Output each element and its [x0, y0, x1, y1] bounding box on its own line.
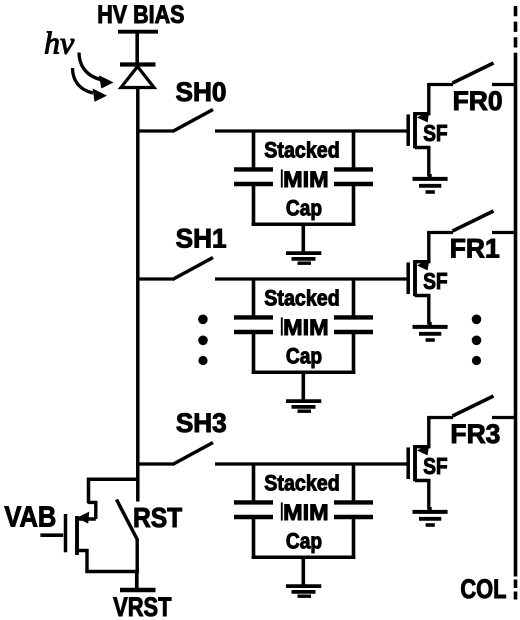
- ground (row3 SF source): [413, 507, 448, 525]
- svg-text:Cap: Cap: [286, 344, 322, 369]
- svg-text:FR3: FR3: [450, 419, 500, 449]
- svg-text:MIM: MIM: [283, 314, 328, 339]
- svg-text:SF: SF: [423, 268, 448, 294]
- label Stacked MIM Cap (row1): [264, 286, 339, 369]
- wire row1 top rail: [215, 277, 407, 280]
- wire FR3 contact to COL: [492, 416, 517, 419]
- wire FR1 contact to COL: [492, 231, 517, 234]
- ground (row0 SF source): [413, 174, 448, 192]
- wire row0 bottom rail: [252, 223, 356, 227]
- svg-text:SH1: SH1: [176, 223, 227, 253]
- svg-text:FR1: FR1: [450, 233, 500, 263]
- photodiode D1: [120, 65, 156, 88]
- transistor SF (row1 source follower): [408, 232, 429, 325]
- svg-text:Stacked: Stacked: [264, 138, 339, 162]
- capacitor C0a (left MIM): [234, 130, 273, 226]
- ground (row1 SF source): [413, 322, 448, 340]
- capacitor C3a (left MIM): [234, 463, 273, 559]
- switch RST: [117, 500, 138, 573]
- ground (row3 cap block): [286, 557, 321, 596]
- switch SH3: [173, 443, 214, 465]
- light arrow 2: [73, 68, 108, 102]
- svg-text:Stacked: Stacked: [264, 471, 339, 495]
- ellipsis dots right: [472, 315, 482, 366]
- svg-text:FR0: FR0: [453, 86, 503, 116]
- svg-text:SF: SF: [423, 453, 448, 479]
- cursor mark left of MIM (row3): [281, 502, 283, 520]
- capacitor C0b (right MIM): [334, 130, 373, 226]
- wire row1 bus-to-SH1: [137, 277, 175, 280]
- svg-text:VRST: VRST: [113, 593, 171, 620]
- wire row0 top rail: [215, 129, 407, 132]
- transistor SF (row0 source follower): [408, 84, 429, 177]
- wire COL dashed top: [514, 6, 518, 56]
- svg-text:SH3: SH3: [176, 408, 227, 438]
- switch FR3: [453, 396, 494, 416]
- switch SH0: [173, 110, 214, 132]
- svg-text:VAB: VAB: [4, 500, 56, 533]
- cursor mark left of MIM (row0): [281, 169, 283, 187]
- svg-text:MIM: MIM: [283, 499, 328, 524]
- wire row1 SF-drain to FR1: [427, 231, 453, 234]
- switch SH1: [173, 258, 214, 280]
- transistor SF (row3 source follower): [408, 417, 429, 510]
- ground (row1 cap block): [286, 372, 321, 411]
- wire row3 bottom rail: [252, 556, 356, 560]
- VRST terminal: [120, 572, 156, 591]
- ground (row0 cap block): [286, 224, 321, 263]
- HV bias terminal bar: [118, 32, 158, 64]
- wire row3 bus-to-SH3: [137, 462, 175, 465]
- wire FR0 contact to COL: [492, 83, 517, 86]
- wire row0 bus-to-SH0: [137, 129, 175, 132]
- svg-text:SH0: SH0: [176, 77, 227, 107]
- capacitor C3b (right MIM): [334, 463, 373, 559]
- switch FR1: [453, 211, 494, 231]
- wire row1 bottom rail: [252, 371, 356, 375]
- svg-text:Cap: Cap: [286, 529, 322, 554]
- label Stacked MIM Cap (row0): [264, 138, 339, 221]
- svg-text:MIM: MIM: [283, 166, 328, 191]
- light arrow 1: [79, 53, 114, 89]
- capacitor C1a (left MIM): [234, 278, 273, 374]
- svg-text:Cap: Cap: [286, 196, 322, 221]
- wire row3 top rail: [215, 462, 407, 465]
- wire bottom loop (VAB source to RST): [85, 570, 139, 574]
- svg-text:RST: RST: [133, 502, 182, 534]
- transistor VAB (anti-blooming): [66, 502, 96, 572]
- cursor mark left of MIM (row1): [281, 317, 283, 335]
- switch FR0: [453, 63, 494, 83]
- wire row3 SF-drain to FR3: [427, 416, 453, 419]
- wire VAB gate lead: [40, 533, 63, 537]
- svg-text:Stacked: Stacked: [264, 286, 339, 310]
- wire row0 SF-drain to FR0: [427, 83, 453, 86]
- svg-text:SF: SF: [423, 120, 448, 146]
- wire VAB-transistor drain loop (top): [89, 479, 140, 503]
- wire COL column line (solid): [514, 56, 518, 577]
- svg-text:hv: hv: [44, 25, 75, 61]
- ellipsis dots left: [198, 315, 208, 366]
- svg-text:HV BIAS: HV BIAS: [97, 0, 184, 28]
- wire main bus (photodiode to RST): [136, 86, 140, 502]
- wire COL dashed bottom: [514, 580, 518, 600]
- svg-text:COL: COL: [460, 575, 506, 605]
- label Stacked MIM Cap (row3): [264, 471, 339, 554]
- capacitor C1b (right MIM): [334, 278, 373, 374]
